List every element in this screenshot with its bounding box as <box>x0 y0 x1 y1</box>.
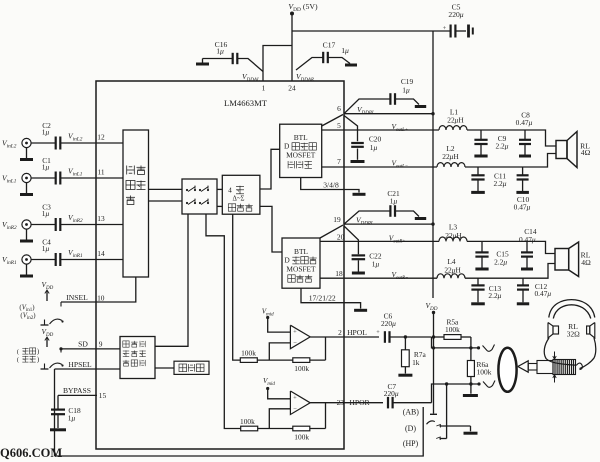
switch INSEL select <box>41 302 64 325</box>
svg-text:1μ: 1μ <box>42 128 50 137</box>
svg-text:32Ω: 32Ω <box>567 330 581 339</box>
capacitor C4 1u <box>31 238 123 267</box>
ground for C9 <box>474 155 487 158</box>
svg-text:0.47μ: 0.47μ <box>516 118 533 127</box>
modulator text 4jie <box>228 186 244 195</box>
wire VDD horizontal rail top <box>292 30 451 32</box>
wire opamp2 bottom node <box>258 403 326 429</box>
label VDDAL <box>242 72 260 83</box>
ground for C13 <box>471 302 485 305</box>
svg-text:100k: 100k <box>445 325 460 334</box>
svg-text:9: 9 <box>99 339 103 348</box>
wire HPOL to jack tip <box>432 337 479 350</box>
jack tip contact <box>477 345 495 352</box>
speaker RL 4ohm R <box>555 242 579 277</box>
svg-text:1μ: 1μ <box>341 46 349 55</box>
speaker R label <box>581 250 591 267</box>
svg-text:+: + <box>376 329 380 336</box>
svg-text:220μ: 220μ <box>384 389 399 398</box>
svg-text:): ) <box>37 349 39 356</box>
svg-text:MOSFET: MOSFET <box>286 265 316 274</box>
svg-text:Δ~Σ: Δ~Σ <box>232 196 244 203</box>
label (HP) <box>403 439 419 448</box>
svg-text:15: 15 <box>99 391 107 400</box>
wire matrix to beep <box>155 214 188 346</box>
capacitor C8 0.47u <box>516 111 533 155</box>
headphone cord right <box>577 338 596 370</box>
wire L3 to speaker <box>467 241 555 253</box>
pin 17/21/22 label <box>309 294 336 303</box>
svg-text:): ) <box>37 357 39 364</box>
beep click suppression block <box>120 337 155 379</box>
ground for R7a <box>398 374 412 377</box>
svg-text:(: ( <box>17 349 19 356</box>
ground for C22 <box>352 272 365 275</box>
svg-text:3/4/8: 3/4/8 <box>323 181 339 190</box>
headphone earcup right <box>587 323 595 339</box>
label guanbi <box>17 348 39 356</box>
svg-text:2.2μ: 2.2μ <box>494 257 507 266</box>
wire ring to mode switch HP contact <box>436 384 446 440</box>
svg-text:17/21/22: 17/21/22 <box>309 294 336 303</box>
capacitor C2 1u <box>31 121 123 150</box>
svg-text:14: 14 <box>97 249 105 258</box>
node VDD 5V supply <box>288 2 318 16</box>
inductor L3 22uH <box>439 223 467 242</box>
resistor 100k input L <box>240 348 257 362</box>
svg-text:0.47μ: 0.47μ <box>514 202 531 211</box>
ground for C21 <box>415 217 426 220</box>
jack ring contact <box>477 381 495 388</box>
ground for C11 <box>471 191 485 194</box>
label BYPASS <box>63 386 107 400</box>
svg-text:4Ω: 4Ω <box>581 258 591 267</box>
wire HPSEL <box>55 368 121 370</box>
svg-text:220μ: 220μ <box>381 319 396 328</box>
svg-text:1μ: 1μ <box>42 163 50 172</box>
mode switch wiper <box>427 421 435 424</box>
svg-text:BTL: BTL <box>294 133 308 142</box>
wire matrix to modulator 1 <box>217 188 222 190</box>
svg-text:+: + <box>293 329 297 336</box>
svg-text:1μ: 1μ <box>68 414 76 423</box>
pin 1 <box>262 84 266 93</box>
svg-text:SD: SD <box>78 339 88 348</box>
capacitor C20 1u <box>344 116 381 160</box>
pin 18 label <box>335 269 408 281</box>
capacitor C17 1u <box>296 41 350 71</box>
label VDDAR <box>296 72 314 83</box>
svg-text:(AB): (AB) <box>403 408 420 417</box>
pin 23 label <box>337 398 371 407</box>
svg-text:INSEL: INSEL <box>66 293 88 302</box>
svg-text:0.47μ: 0.47μ <box>534 289 551 298</box>
wire beep to thermal <box>155 367 174 369</box>
plug insert arrows <box>553 352 556 383</box>
label INSEL <box>66 293 105 303</box>
svg-text:100k: 100k <box>241 348 256 357</box>
wire selector to matrix 1 <box>149 188 183 190</box>
svg-text:6: 6 <box>337 104 341 113</box>
modulator text tiaozhiqi <box>228 204 252 211</box>
label HPSEL <box>68 360 92 369</box>
capacitor C14 0.47u <box>519 227 537 268</box>
capacitor C11 2.2u <box>471 167 506 191</box>
ground for C14 <box>521 268 533 271</box>
BTL class-D MOSFET output stage R <box>282 238 320 288</box>
label LM4663MT <box>224 98 268 108</box>
svg-text:4Ω: 4Ω <box>581 148 591 157</box>
capacitor C3 1u <box>31 203 123 232</box>
pin 23 HPOR wire <box>344 402 383 404</box>
svg-text:(HP): (HP) <box>403 439 419 448</box>
pin 14 <box>97 249 105 258</box>
svg-text:HPSEL: HPSEL <box>68 360 92 369</box>
speaker RL 4ohm L <box>556 132 577 168</box>
wire opamp1 out <box>310 336 344 338</box>
headphone label RL 32ohm <box>567 322 581 339</box>
watermark Q606.COM <box>0 446 62 460</box>
svg-text:C17: C17 <box>323 41 336 50</box>
pin 19 VDDPL wire <box>320 222 435 238</box>
ground for R6a <box>463 384 478 396</box>
svg-text:5: 5 <box>337 121 341 130</box>
headphone jack barrel <box>498 348 516 392</box>
svg-text:HPOL: HPOL <box>347 328 367 337</box>
supply Vmid 1 <box>262 308 291 333</box>
op-amp HP R <box>290 391 310 415</box>
supply VDD arrow 2 <box>42 327 54 347</box>
ground for C19 <box>415 105 426 108</box>
switch SD <box>41 349 64 369</box>
delta sigma modulator block <box>222 175 260 214</box>
svg-text:22μH: 22μH <box>442 152 459 161</box>
wire INSEL to selector <box>61 277 136 302</box>
svg-text:−: − <box>293 340 297 347</box>
label (Vin1) <box>19 305 34 314</box>
resistor 100k feedback L <box>293 358 310 373</box>
pin 13 <box>97 214 105 223</box>
input selector text <box>126 166 146 205</box>
capacitor C12 0.47u <box>517 278 551 302</box>
svg-text:22μH: 22μH <box>444 265 461 274</box>
thermal shutdown block <box>174 361 209 374</box>
wire HPOR to jack ring <box>432 382 480 402</box>
label VinR2 wire <box>68 213 83 224</box>
label VinR1 wire <box>68 248 83 259</box>
svg-text:23: 23 <box>337 398 345 407</box>
label (Vin2) <box>20 313 35 322</box>
modulator text delta sigma <box>232 196 244 203</box>
capacitor C22 1u <box>344 226 382 272</box>
svg-text:−: − <box>293 406 297 413</box>
mode select bracket <box>55 407 424 456</box>
pin 17/21/22 wire <box>301 288 361 308</box>
ground for C5 <box>469 25 473 38</box>
capacitor C18 1u <box>51 395 81 428</box>
ground for C16 <box>196 63 209 66</box>
op-amp HP L <box>290 325 310 349</box>
IC supply notch <box>263 46 292 82</box>
svg-text:2.2μ: 2.2μ <box>488 291 501 300</box>
pin 19 label <box>333 215 374 226</box>
input jack VinR1 <box>2 255 33 276</box>
pin 3/4/8 label <box>323 181 339 190</box>
ground for C15 <box>475 268 488 271</box>
svg-text:7: 7 <box>337 157 341 166</box>
wire modulator to BTL R <box>260 206 282 252</box>
capacitor C13 2.2u <box>471 278 501 302</box>
svg-text:4: 4 <box>228 186 232 195</box>
label (AB) <box>403 408 420 417</box>
pin 2 HPOL wire <box>344 336 379 338</box>
svg-text:10: 10 <box>97 294 105 303</box>
svg-text:100k: 100k <box>294 364 309 373</box>
IC LM4663MT outline <box>96 81 344 449</box>
input jack VinL2 <box>2 138 33 159</box>
svg-text:1μ: 1μ <box>42 244 50 253</box>
BTL class-D MOSFET output stage L <box>280 124 322 177</box>
svg-text:1μ: 1μ <box>42 209 50 218</box>
svg-text:18: 18 <box>335 269 343 278</box>
capacitor C6 220u <box>376 312 431 343</box>
inductor L2 22uH <box>437 144 465 167</box>
svg-text:24: 24 <box>288 84 296 93</box>
label VinL1 wire <box>68 167 83 178</box>
pin 20 label <box>337 233 406 245</box>
pin 5 wire VoutL+ <box>322 129 439 131</box>
svg-text:13: 13 <box>97 214 105 223</box>
wire matrix-to-100k R <box>206 214 241 429</box>
svg-text:1μ: 1μ <box>390 196 398 205</box>
wire L1 to speaker <box>467 130 556 146</box>
wire VDD right rail <box>432 31 434 298</box>
ground for pin 17/21/22 <box>354 309 367 312</box>
resistor R6a 100k <box>467 348 491 384</box>
label (D) <box>405 424 416 433</box>
wire VDD rail lower <box>430 313 437 415</box>
headphone cord left <box>544 338 576 365</box>
capacitor C15 2.2u <box>475 241 509 267</box>
thermal shutdown text <box>179 364 204 372</box>
wire matrix-to-100k L <box>233 214 241 360</box>
pin 2 label <box>338 328 367 337</box>
svg-text:D: D <box>284 142 290 151</box>
label VinL2 wire <box>68 132 83 143</box>
svg-text:BYPASS: BYPASS <box>63 386 91 395</box>
resistor 100k input R <box>240 417 258 431</box>
svg-text:100k: 100k <box>294 432 309 441</box>
wire selector to matrix 2 <box>149 200 183 202</box>
svg-text:1μ: 1μ <box>372 260 380 269</box>
resistor R7a 1k <box>402 335 427 373</box>
svg-text:20: 20 <box>337 233 345 242</box>
wire opamp1 bottom node <box>257 337 325 360</box>
mode switch common wire D contact <box>436 425 470 432</box>
wire VDD vertical <box>291 14 293 46</box>
ground for C20 <box>351 160 365 163</box>
svg-text:+: + <box>443 25 447 32</box>
svg-text:Q606.COM: Q606.COM <box>0 446 62 460</box>
inductor L1 22uH <box>439 108 467 131</box>
svg-text:+: + <box>293 394 297 401</box>
wire L4 to speaker <box>465 264 555 279</box>
headphone headband <box>549 300 595 319</box>
phone plug <box>518 361 553 374</box>
capacitor C5 220u <box>443 3 466 38</box>
pin 6 VDDPL wire <box>322 112 435 126</box>
svg-text:2.2μ: 2.2μ <box>494 179 507 188</box>
ground for mode switch <box>464 432 478 435</box>
svg-text:1μ: 1μ <box>402 86 410 95</box>
pin 7 wire VoutL- <box>322 166 437 168</box>
pin 20 wire VoutR+ <box>320 240 439 242</box>
supply Vmid 2 <box>263 377 290 399</box>
svg-text:11: 11 <box>97 168 104 177</box>
phone plug sleeve <box>553 360 576 375</box>
svg-text:HPOR: HPOR <box>349 398 370 407</box>
capacitor C9 2.2u <box>474 130 508 155</box>
input jack VinR2 <box>2 220 33 241</box>
resistor R5a 100k <box>432 318 471 348</box>
capacitor C10 0.47u <box>514 167 531 211</box>
pin 6 label <box>337 104 375 116</box>
ground for C17 <box>345 64 357 67</box>
capacitor C19 1u <box>344 77 419 114</box>
beep click text <box>123 341 146 366</box>
svg-text:1: 1 <box>262 84 266 93</box>
inductor L4 22uH <box>437 257 465 278</box>
pin 3/4/8 wire <box>301 178 359 193</box>
capacitor C21 1u <box>344 189 419 224</box>
svg-text:2: 2 <box>338 328 342 337</box>
svg-text:MOSFET: MOSFET <box>286 151 316 160</box>
label VDD rail <box>426 301 438 314</box>
wire BYPASS <box>58 394 97 396</box>
pin 12 <box>97 133 105 142</box>
svg-text:100k: 100k <box>477 367 492 376</box>
matrix switches <box>186 186 209 205</box>
pin 24 <box>288 84 296 93</box>
svg-text:12: 12 <box>97 133 105 142</box>
input selector block <box>123 130 149 277</box>
pin 18 wire VoutR- <box>320 277 437 279</box>
ground for C12 <box>517 302 529 305</box>
pin 5 label <box>337 121 408 133</box>
wire opamp2 out <box>310 402 344 404</box>
wire L2 to speaker <box>465 154 556 168</box>
wire matrix to modulator 2 <box>217 205 222 207</box>
svg-text:D: D <box>284 256 290 265</box>
ground for pin 3/4/8 <box>353 193 366 196</box>
svg-text:2.2μ: 2.2μ <box>496 141 509 150</box>
svg-text:19: 19 <box>333 215 341 224</box>
svg-text:1μ: 1μ <box>370 143 378 152</box>
capacitor C1 1u <box>31 156 123 185</box>
wire opamp2 minus <box>269 409 290 429</box>
svg-text:100k: 100k <box>240 417 255 426</box>
svg-text:1μ: 1μ <box>216 47 224 56</box>
svg-text:22μH: 22μH <box>447 116 464 125</box>
svg-text:BTL: BTL <box>294 247 308 256</box>
ground for C10 <box>516 191 529 194</box>
capacitor C16 1u <box>203 40 264 72</box>
capacitor C7 220u <box>384 382 432 408</box>
resistor 100k feedback R <box>293 426 310 441</box>
switch matrix block <box>182 179 217 214</box>
svg-text:1k: 1k <box>412 358 420 367</box>
pin 7 label <box>337 157 408 169</box>
wire modulator to BTL L <box>260 149 280 189</box>
supply VDD arrow 1 <box>42 280 54 301</box>
label SD <box>78 339 103 348</box>
wire SD <box>59 347 120 350</box>
headphone earcup left <box>548 323 559 339</box>
ground for C18 <box>50 428 66 431</box>
svg-text:(D): (D) <box>405 424 416 433</box>
input jack VinL1 <box>2 173 33 194</box>
svg-text:LM4663MT: LM4663MT <box>224 98 268 108</box>
label caozuo <box>17 356 39 364</box>
wire HPSEL down to bottom rail <box>54 369 56 456</box>
svg-text:(: ( <box>17 357 19 364</box>
svg-text:220μ: 220μ <box>448 10 463 19</box>
pin 11 <box>97 168 104 177</box>
speaker L label <box>580 142 590 158</box>
wire opamp1 minus <box>269 343 290 360</box>
ground for C8 <box>519 155 531 158</box>
